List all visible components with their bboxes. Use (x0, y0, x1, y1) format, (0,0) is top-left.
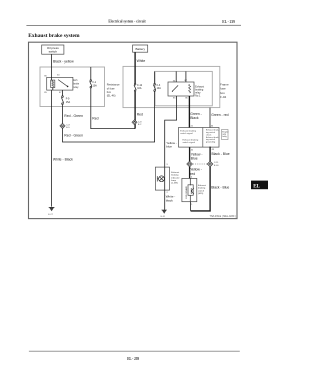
svg-text:braking: braking (198, 187, 206, 190)
svg-text:10A: 10A (157, 87, 162, 90)
svg-text:grounding: grounding (206, 141, 216, 144)
svg-text:Green - red: Green - red (211, 113, 228, 117)
svg-text:EL - 239: EL - 239 (222, 19, 235, 24)
svg-text:lamp: lamp (171, 180, 177, 182)
svg-text:Yellow -: Yellow - (190, 168, 202, 172)
svg-text:Resistance: Resistance (107, 83, 120, 87)
svg-text:Black - Blue: Black - Blue (211, 185, 229, 189)
svg-text:Battery: Battery (135, 47, 145, 51)
svg-text:box: box (107, 90, 112, 94)
svg-text:10A: 10A (93, 84, 98, 87)
svg-text:red: red (190, 172, 195, 176)
svg-text:EXH BRAKE: EXH BRAKE (185, 185, 188, 198)
svg-text:41: 41 (191, 125, 194, 127)
svg-text:White: White (137, 59, 146, 63)
svg-text:85: 85 (44, 92, 47, 94)
svg-text:10A: 10A (137, 87, 142, 90)
svg-text:of fuse: of fuse (107, 86, 115, 90)
svg-text:Blue: Blue (191, 157, 198, 161)
svg-text:(1.4W): (1.4W) (171, 183, 178, 185)
svg-text:Exhaust: Exhaust (171, 171, 179, 174)
svg-text:TSZ-239-E ( MEL-0239 ): TSZ-239-E ( MEL-0239 ) (209, 215, 236, 218)
svg-text:switch: switch (49, 50, 58, 54)
svg-text:Electrical system - circuit: Electrical system - circuit (108, 19, 146, 24)
svg-text:B-2: B-2 (138, 124, 142, 126)
svg-text:3: 3 (166, 164, 168, 166)
svg-text:87: 87 (59, 92, 62, 94)
svg-text:switch: switch (198, 189, 205, 192)
svg-text:E-40: E-40 (214, 165, 219, 167)
svg-text:brake: brake (73, 83, 79, 86)
svg-text:E-27: E-27 (48, 214, 53, 216)
svg-text:30: 30 (57, 75, 60, 77)
svg-text:F-04: F-04 (220, 95, 227, 99)
svg-text:Exhaust brake system: Exhaust brake system (28, 33, 80, 39)
svg-text:indicator: indicator (171, 176, 180, 179)
svg-text:Exh: Exh (73, 80, 78, 82)
svg-text:EL: EL (253, 184, 260, 189)
svg-text:switch signal: switch signal (183, 141, 196, 144)
svg-text:No.1: No.1 (195, 95, 201, 98)
svg-text:blue: blue (166, 144, 172, 148)
svg-text:Red - Green: Red - Green (64, 114, 83, 118)
svg-text:Red: Red (92, 116, 98, 120)
svg-text:Red: Red (137, 112, 143, 116)
svg-text:43: 43 (212, 149, 215, 151)
svg-text:Exhaust braking: Exhaust braking (183, 139, 199, 142)
svg-text:EL - 239: EL - 239 (127, 356, 139, 361)
svg-text:85: 85 (173, 97, 176, 99)
svg-text:86: 86 (185, 97, 188, 99)
svg-text:(EL-46): (EL-46) (107, 94, 116, 98)
svg-text:15A: 15A (66, 101, 71, 104)
svg-text:braking: braking (171, 174, 179, 177)
svg-text:E-5: E-5 (66, 127, 70, 129)
svg-text:Black - Blue: Black - Blue (212, 152, 230, 156)
svg-text:(M-5): (M-5) (198, 193, 203, 195)
svg-text:Red - Green: Red - Green (64, 133, 83, 137)
svg-text:White -: White - (166, 194, 176, 198)
svg-text:black: black (166, 199, 174, 203)
svg-text:Black: Black (190, 116, 199, 120)
svg-text:Black - yellow: Black - yellow (53, 60, 74, 64)
svg-text:White - Black: White - Black (53, 158, 73, 162)
svg-text:relay: relay (73, 86, 79, 89)
svg-text:1: 1 (191, 204, 193, 206)
svg-text:Exhaust: Exhaust (198, 184, 206, 187)
svg-text:switch signal: switch signal (180, 132, 193, 135)
svg-text:Exhaust braking: Exhaust braking (180, 130, 196, 133)
svg-text:E-31: E-31 (161, 216, 166, 218)
